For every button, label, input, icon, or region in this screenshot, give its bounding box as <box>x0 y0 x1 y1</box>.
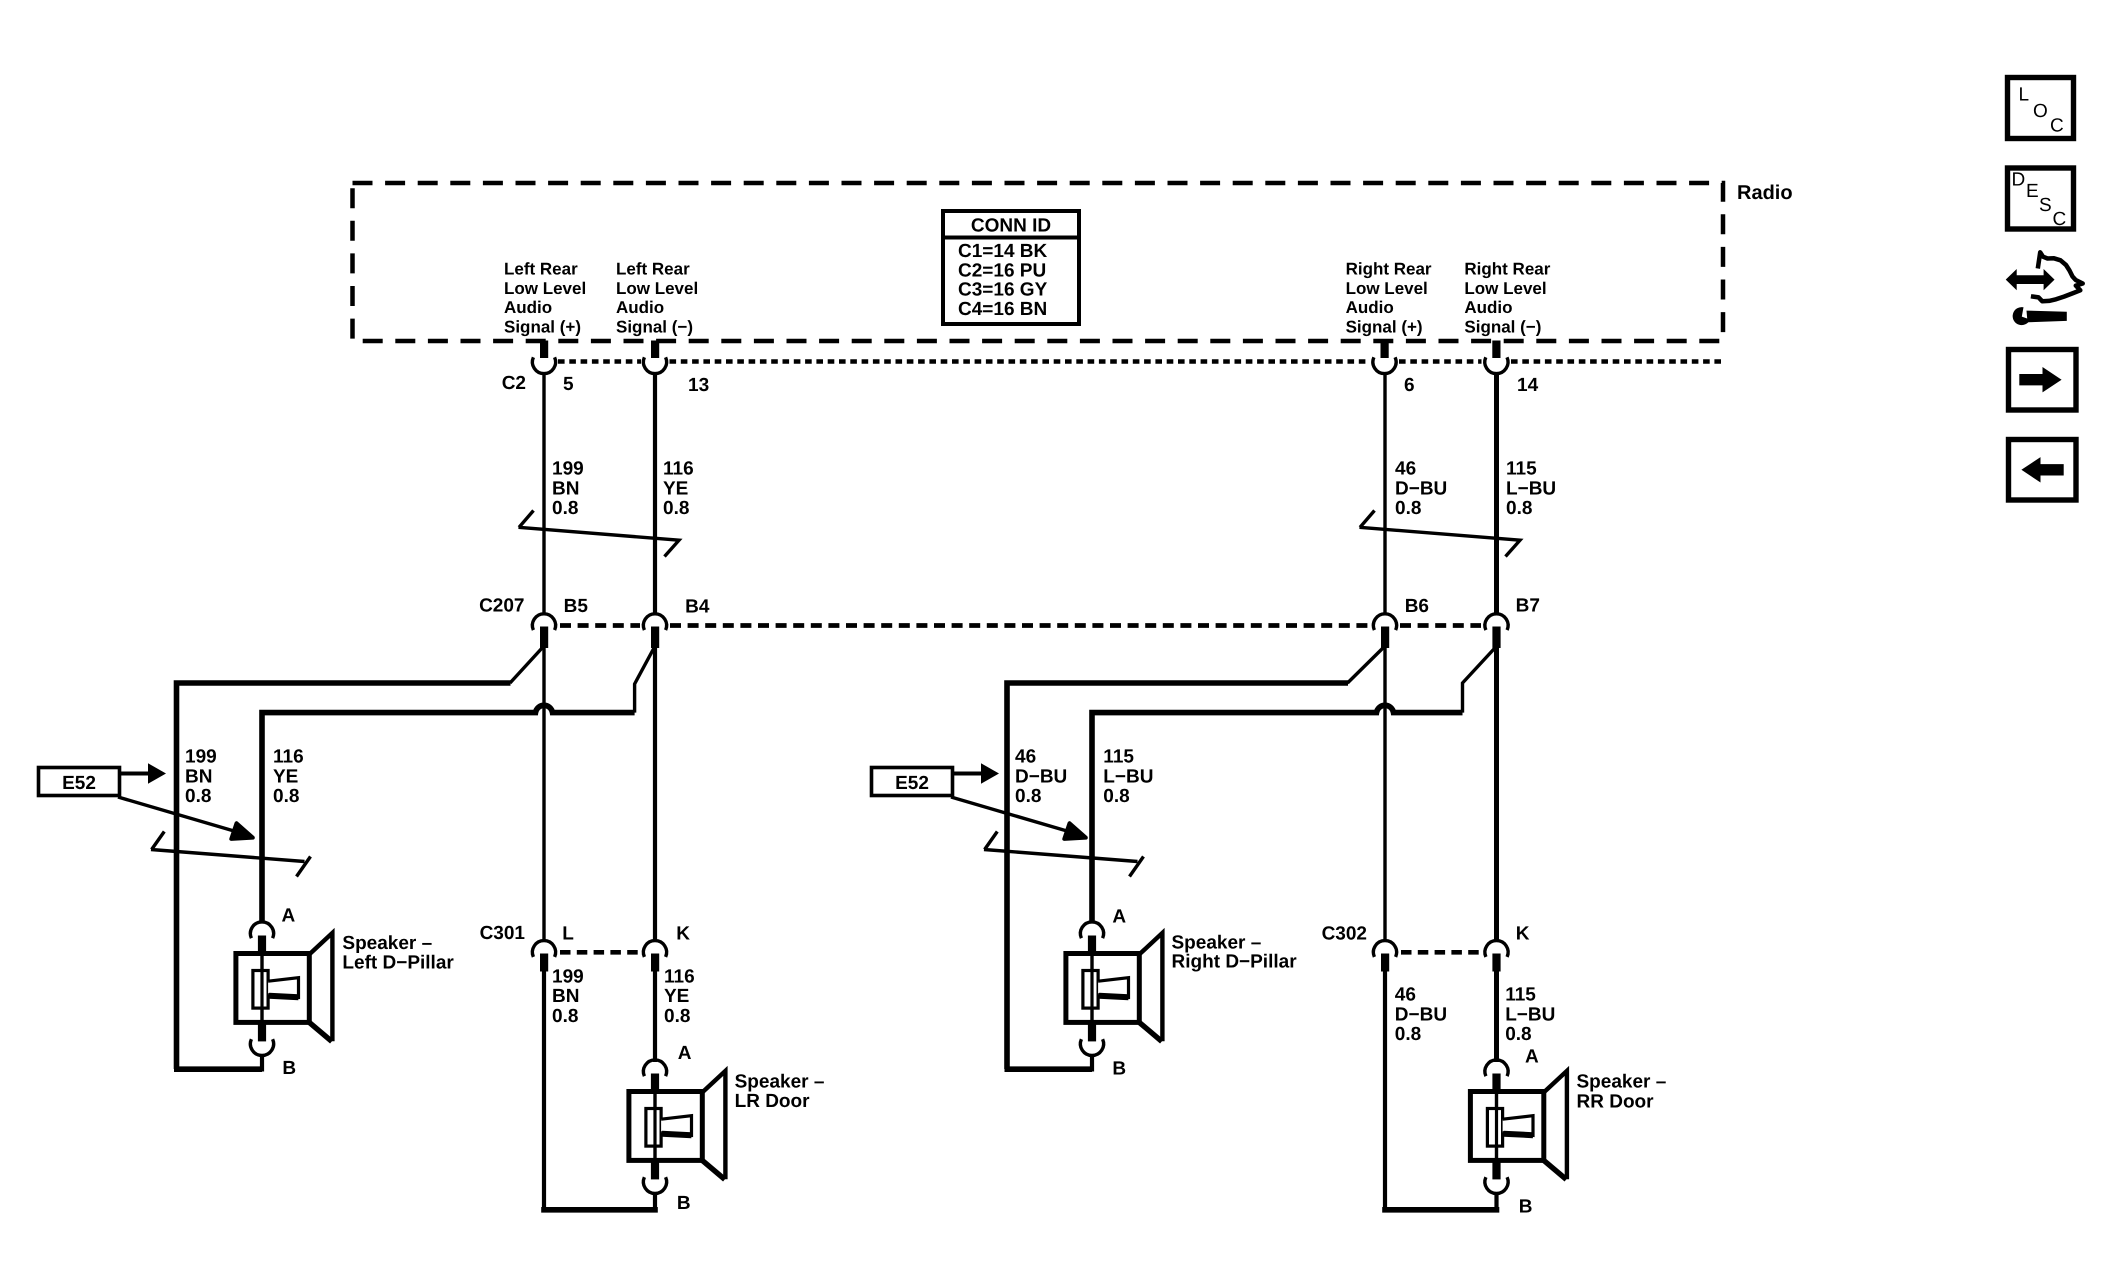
wire return horizontal (left D-pillar B to 199 BN) <box>174 1066 262 1072</box>
svg-text:199: 199 <box>552 967 584 988</box>
connector C301 terminal arc K <box>643 941 666 957</box>
wire 46 D-BU from C302 to RR door speaker B <box>1383 971 1387 1210</box>
svg-text:14: 14 <box>1517 375 1539 396</box>
wire diagonal from B6 pin to right branch <box>1348 647 1385 683</box>
connector C207 terminal arc B5 <box>532 614 555 630</box>
svg-text:Audio: Audio <box>1346 298 1394 317</box>
svg-text:0.8: 0.8 <box>1103 786 1129 807</box>
speaker RR Door <box>1470 1060 1567 1194</box>
svg-text:115: 115 <box>1505 985 1536 1006</box>
icon DESC box <box>2008 168 2074 230</box>
svg-text:L−BU: L−BU <box>1506 478 1556 499</box>
wire upper-right branch horizontal (46 D-BU) <box>1007 683 1348 1069</box>
svg-text:0.8: 0.8 <box>663 498 689 519</box>
svg-text:0.8: 0.8 <box>552 498 578 519</box>
wire diagonal from B5 pin to left branch <box>510 647 543 683</box>
wire speaker Right D-Pillar B to return <box>1090 1054 1094 1072</box>
connector C301 terminal arc L <box>532 941 555 957</box>
radio (dashed outline box) <box>353 183 1724 341</box>
svg-text:L: L <box>2019 85 2030 106</box>
connector C2 terminal cup pin 13 <box>643 357 666 373</box>
connector C2 pin 6 (radio side pin) <box>1381 341 1389 359</box>
speaker LR Door <box>629 1060 726 1194</box>
svg-text:L: L <box>562 924 574 945</box>
arrow E52 to 46 D-BU wire <box>953 763 999 784</box>
svg-text:Low Level: Low Level <box>1464 279 1546 298</box>
wire 115 L-BU from C302 to RR door speaker A <box>1494 971 1499 1062</box>
wire lower-left branch horizontal (116 YE) with hop over 199 BN wire <box>262 705 635 921</box>
svg-text:B: B <box>1112 1058 1126 1079</box>
svg-text:Low Level: Low Level <box>1346 279 1428 298</box>
svg-text:199: 199 <box>185 747 217 768</box>
icon prev-page (left arrow box) <box>2009 440 2077 501</box>
svg-text:46: 46 <box>1395 985 1416 1006</box>
svg-text:Right Rear: Right Rear <box>1464 260 1550 279</box>
svg-text:B6: B6 <box>1405 596 1429 617</box>
speaker Right D-Pillar <box>1066 922 1163 1056</box>
connector C207 dashed line <box>560 623 1481 628</box>
connector C207 pin B5 <box>540 627 548 649</box>
svg-text:B: B <box>677 1193 691 1214</box>
wire speaker RR Door B down to return <box>1494 1192 1498 1211</box>
svg-text:LR Door: LR Door <box>735 1091 811 1112</box>
svg-text:Signal (+): Signal (+) <box>504 317 581 336</box>
svg-text:A: A <box>1525 1046 1539 1067</box>
svg-text:D: D <box>2012 170 2026 191</box>
svg-text:0.8: 0.8 <box>273 786 299 807</box>
svg-text:E: E <box>2026 181 2039 202</box>
svg-text:Low Level: Low Level <box>616 279 698 298</box>
svg-text:C: C <box>2050 116 2064 137</box>
icon component-view (double arrow, panel outline, wrench) <box>2007 252 2083 325</box>
wire upper-left branch horizontal (199 BN) <box>177 683 511 1069</box>
wire break symbol (left speaker feeds) <box>151 832 305 862</box>
svg-text:B7: B7 <box>1516 595 1540 616</box>
svg-text:Speaker –: Speaker – <box>1577 1071 1667 1092</box>
connector C207 pin B6 <box>1381 627 1389 649</box>
connector C301 pin L <box>540 954 548 972</box>
svg-text:A: A <box>678 1043 692 1064</box>
wire 116 YE radio to C207 <box>653 374 657 614</box>
svg-text:5: 5 <box>563 374 574 395</box>
wire speaker LR Door B down to return <box>653 1192 657 1211</box>
svg-text:K: K <box>1516 924 1530 945</box>
svg-text:199: 199 <box>552 459 584 480</box>
wire 199 BN from C301 to LR door speaker B <box>542 971 546 1210</box>
wire 46 D-BU radio to C207 <box>1383 374 1386 614</box>
svg-text:O: O <box>2033 101 2048 122</box>
connector C302 pin K <box>1492 954 1500 972</box>
svg-text:6: 6 <box>1404 375 1415 396</box>
svg-text:Signal (−): Signal (−) <box>616 317 693 336</box>
svg-text:BN: BN <box>552 478 579 499</box>
wire break symbol (right pair) <box>1360 511 1521 557</box>
CONN ID table <box>943 211 1079 324</box>
arrow E52 to 116 YE wire <box>118 797 253 839</box>
svg-text:Audio: Audio <box>1464 298 1512 317</box>
svg-text:D−BU: D−BU <box>1395 1004 1447 1025</box>
svg-text:Right Rear: Right Rear <box>1346 260 1432 279</box>
wire 46 D-BU continues down C207 to C302 <box>1383 648 1386 941</box>
svg-text:C2: C2 <box>502 373 526 394</box>
connector C2 terminal cup pin 14 <box>1485 357 1508 373</box>
svg-text:115: 115 <box>1506 459 1537 480</box>
connector C301 pin K <box>651 954 659 972</box>
svg-text:46: 46 <box>1015 747 1036 768</box>
svg-text:L−BU: L−BU <box>1103 766 1153 787</box>
wire 199 BN radio to C207 <box>542 374 545 614</box>
svg-text:YE: YE <box>273 766 298 787</box>
svg-text:Left D−Pillar: Left D−Pillar <box>342 952 454 973</box>
svg-text:0.8: 0.8 <box>1015 786 1041 807</box>
svg-text:Speaker –: Speaker – <box>1172 932 1262 953</box>
svg-text:0.8: 0.8 <box>1505 1024 1531 1045</box>
wire 115 L-BU continues down C207 to C302 <box>1494 648 1499 941</box>
svg-text:Speaker –: Speaker – <box>735 1072 825 1093</box>
svg-text:Speaker –: Speaker – <box>342 933 432 954</box>
svg-text:Left Rear: Left Rear <box>616 260 690 279</box>
svg-text:L−BU: L−BU <box>1505 1004 1555 1025</box>
wire 199 BN continues down C207 to C301 <box>542 648 545 941</box>
svg-text:E52: E52 <box>62 773 96 794</box>
icon next-page (right arrow box) <box>2009 350 2077 411</box>
speaker Left D-Pillar <box>236 922 333 1056</box>
connector C302 terminal arc K <box>1485 941 1508 957</box>
svg-text:C2=16 PU: C2=16 PU <box>958 260 1046 281</box>
svg-text:E52: E52 <box>895 773 929 794</box>
wire 116 YE continues down C207 to C301 <box>653 648 657 941</box>
wire break symbol (left pair) <box>519 511 680 557</box>
connector C2 terminal cup pin 6 <box>1373 357 1396 373</box>
svg-text:0.8: 0.8 <box>1395 498 1421 519</box>
connector C2 dotted line <box>558 359 1723 364</box>
connector C2 pin 5 (radio side pin) <box>540 341 548 359</box>
connector E52 callout box (left) <box>39 768 120 796</box>
svg-text:K: K <box>676 924 690 945</box>
connector C207 terminal arc B6 <box>1373 614 1396 630</box>
connector C207 pin B7 <box>1492 627 1500 649</box>
svg-text:Low Level: Low Level <box>504 279 586 298</box>
wire speaker Left D-Pillar B to return <box>260 1054 264 1072</box>
connector C301 dashed line <box>560 950 641 955</box>
svg-text:0.8: 0.8 <box>1506 498 1532 519</box>
connector C207 terminal arc B4 <box>643 614 666 630</box>
wire diagonal from B7 pin to lower-right branch <box>1463 647 1496 713</box>
svg-text:0.8: 0.8 <box>185 786 211 807</box>
connector C302 terminal arc (46 D-BU) <box>1373 941 1396 957</box>
svg-text:B: B <box>1519 1196 1533 1217</box>
svg-text:B5: B5 <box>564 596 589 617</box>
svg-text:C301: C301 <box>480 923 526 944</box>
svg-text:CONN ID: CONN ID <box>971 216 1051 237</box>
svg-text:C4=16 BN: C4=16 BN <box>958 299 1047 320</box>
wire lower-right branch horizontal (115 L-BU) with hop over 46 D-BU wire <box>1092 705 1463 921</box>
svg-text:46: 46 <box>1395 459 1416 480</box>
wire 116 YE from C301 to LR door speaker A <box>653 971 657 1062</box>
wire break symbol (right speaker feeds) <box>984 832 1138 862</box>
arrow E52 to 115 L-BU wire <box>951 797 1086 839</box>
wire 115 L-BU radio to C207 <box>1494 374 1499 614</box>
arrow E52 to 199 BN wire <box>120 763 166 784</box>
connector E52 callout box (right) <box>872 768 953 796</box>
svg-text:C3=16 GY: C3=16 GY <box>958 280 1048 301</box>
connector C2 terminal cup pin 5 <box>532 357 555 373</box>
connector C2 pin 13 (radio side pin) <box>651 341 659 359</box>
icon LOC box <box>2008 78 2074 139</box>
svg-text:Signal (+): Signal (+) <box>1346 317 1423 336</box>
svg-text:116: 116 <box>273 747 304 768</box>
svg-text:A: A <box>1112 906 1126 927</box>
svg-text:D−BU: D−BU <box>1015 766 1067 787</box>
svg-text:Left Rear: Left Rear <box>504 260 578 279</box>
connector C302 pin (46 D-BU) <box>1381 954 1389 972</box>
svg-text:115: 115 <box>1103 747 1134 768</box>
svg-text:0.8: 0.8 <box>664 1006 690 1027</box>
svg-text:C1=14 BK: C1=14 BK <box>958 241 1048 262</box>
svg-text:0.8: 0.8 <box>552 1006 578 1027</box>
wire return horizontal (right D-pillar B to 46 D-BU) <box>1005 1066 1093 1072</box>
wire diagonal from B4 pin to lower-left branch <box>635 647 655 713</box>
connector C2 pin 14 (radio side pin) <box>1492 341 1500 359</box>
svg-text:B: B <box>282 1058 296 1079</box>
svg-text:Audio: Audio <box>616 298 664 317</box>
svg-text:D−BU: D−BU <box>1395 478 1447 499</box>
svg-text:C302: C302 <box>1322 924 1367 945</box>
svg-text:YE: YE <box>663 478 688 499</box>
svg-text:13: 13 <box>688 375 709 396</box>
svg-text:C: C <box>2053 209 2067 230</box>
svg-text:Radio: Radio <box>1737 182 1793 204</box>
svg-text:BN: BN <box>552 986 579 1007</box>
svg-text:B4: B4 <box>685 596 710 617</box>
svg-text:YE: YE <box>664 986 689 1007</box>
svg-text:Right D−Pillar: Right D−Pillar <box>1172 952 1298 973</box>
connector C302 dashed line <box>1401 950 1481 955</box>
svg-text:BN: BN <box>185 766 212 787</box>
svg-text:S: S <box>2039 195 2052 216</box>
svg-text:116: 116 <box>663 459 694 480</box>
svg-text:Signal (−): Signal (−) <box>1464 317 1541 336</box>
svg-text:RR Door: RR Door <box>1577 1091 1655 1112</box>
connector C207 terminal arc B7 <box>1485 614 1508 630</box>
connector C207 pin B4 <box>651 627 659 649</box>
svg-text:116: 116 <box>664 967 695 988</box>
svg-text:Audio: Audio <box>504 298 552 317</box>
svg-text:A: A <box>282 906 296 927</box>
svg-text:0.8: 0.8 <box>1395 1024 1421 1045</box>
svg-text:C207: C207 <box>479 596 524 617</box>
